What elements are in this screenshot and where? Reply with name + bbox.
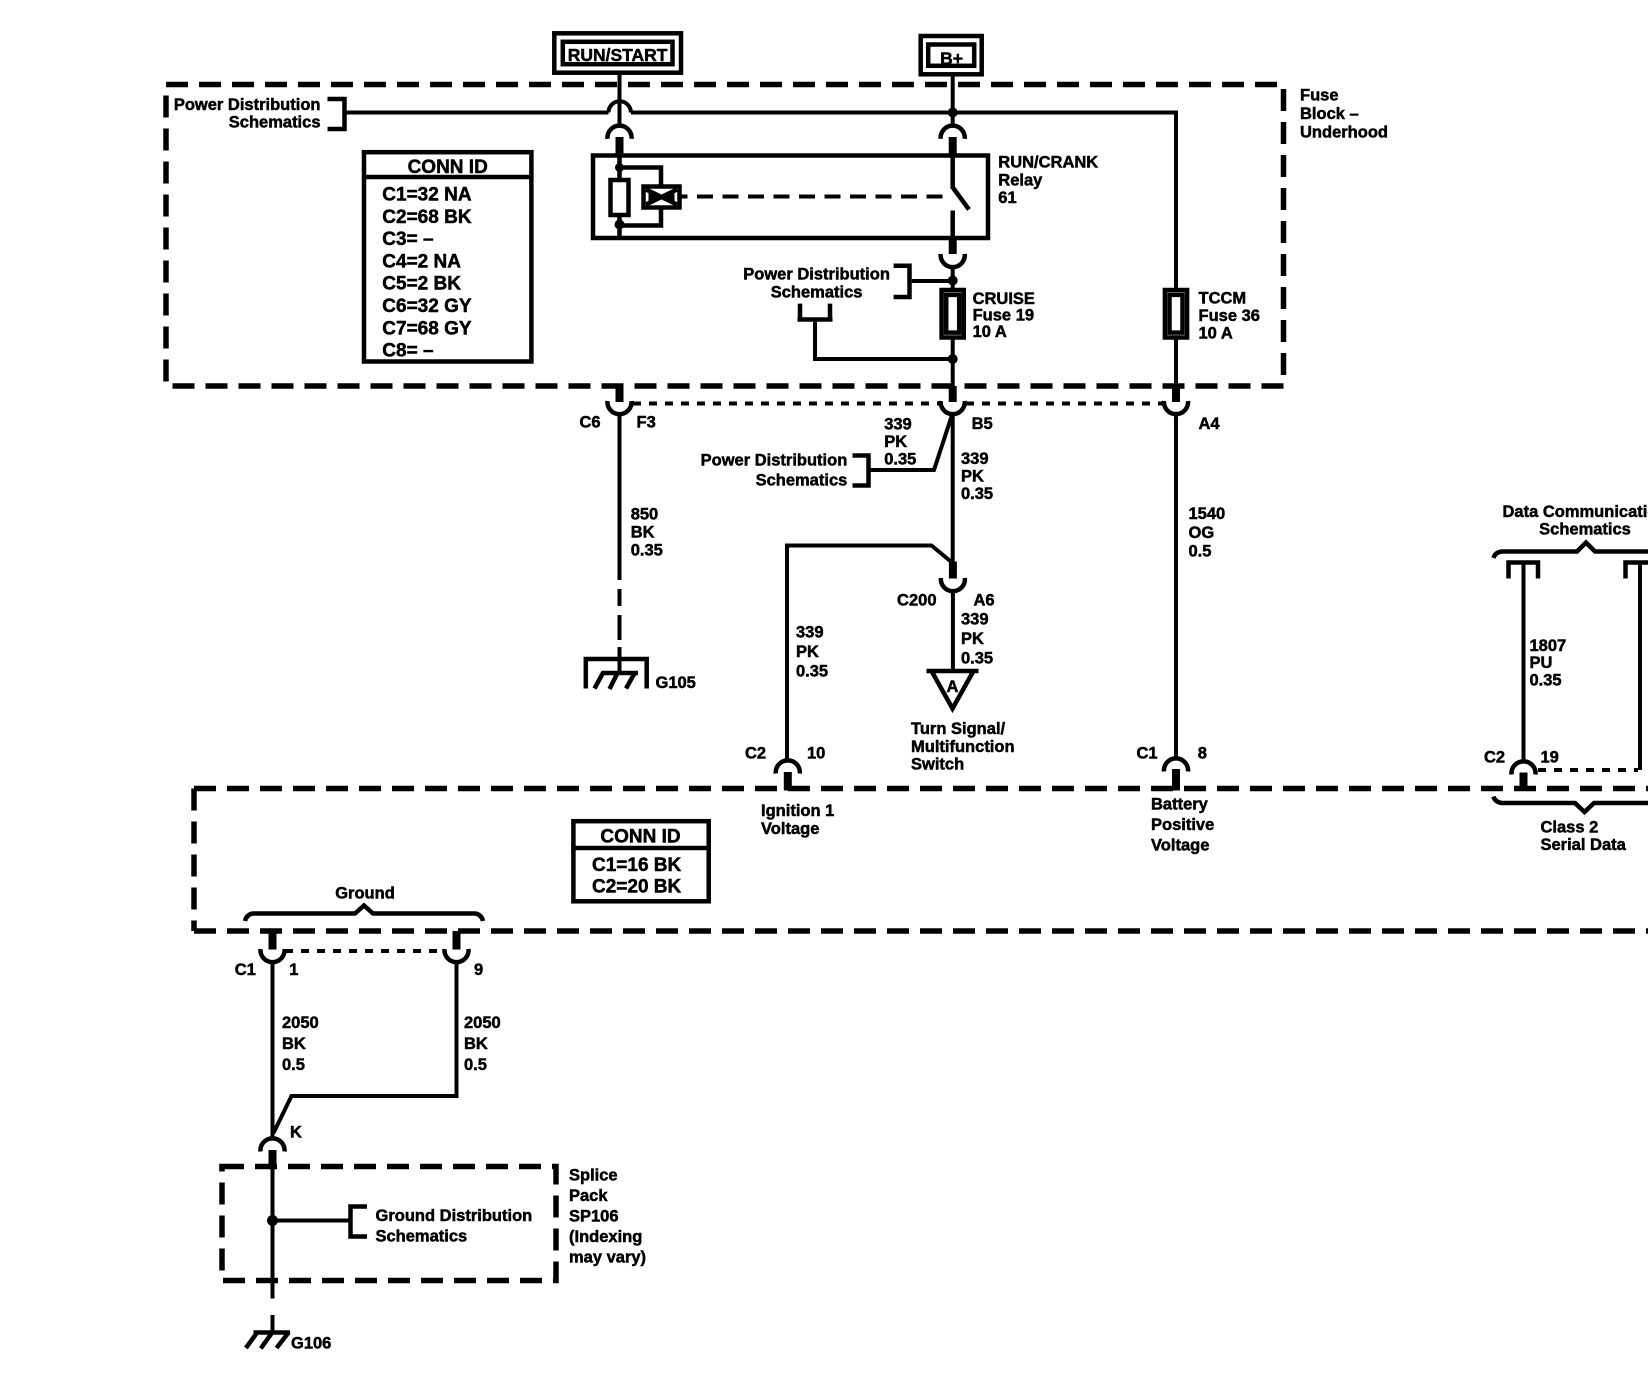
- svg-text:C5=2 BK: C5=2 BK: [382, 274, 461, 295]
- svg-text:Turn Signal/: Turn Signal/: [911, 720, 1006, 738]
- svg-text:Fuse: Fuse: [1300, 87, 1339, 105]
- svg-text:850: 850: [631, 506, 659, 524]
- wire from B+ down: [951, 74, 955, 127]
- wire right serial data down: [1638, 563, 1642, 771]
- svg-text:Block –: Block –: [1300, 105, 1359, 123]
- svg-text:C4=2 NA: C4=2 NA: [382, 251, 461, 272]
- junction dot upper coil branch: [615, 163, 624, 172]
- svg-text:PK: PK: [961, 630, 984, 648]
- wire relay to cruise fuse: [951, 267, 955, 291]
- svg-text:PK: PK: [796, 643, 819, 661]
- label RUN/CRANK Relay 61: [998, 154, 1098, 208]
- data communication brace (top): [1494, 543, 1648, 559]
- junction dot above cruise fuse: [948, 276, 958, 286]
- label Ignition 1 Voltage: [761, 802, 834, 838]
- svg-text:PU: PU: [1530, 654, 1553, 672]
- relay coil (crossed box): [644, 187, 680, 208]
- svg-text:1807: 1807: [1530, 637, 1567, 655]
- label CRUISE Fuse 19 10A: [973, 290, 1035, 341]
- svg-text:Serial Data: Serial Data: [1541, 836, 1627, 854]
- label Turn Signal / Multifunction Switch: [911, 720, 1015, 774]
- pin stub into cluster at C1 pin 8: [1172, 769, 1180, 791]
- label 339 PK 0.35 (left of B5): [884, 416, 916, 469]
- svg-text:BK: BK: [282, 1035, 306, 1053]
- svg-text:339: 339: [796, 624, 824, 642]
- svg-text:Positive: Positive: [1151, 816, 1214, 834]
- svg-text:Ground: Ground: [335, 885, 395, 903]
- svg-text:PK: PK: [961, 468, 984, 486]
- svg-text:C3= –: C3= –: [382, 229, 433, 250]
- svg-text:0.35: 0.35: [631, 542, 663, 560]
- off-page triangle arrow A (turn signal switch): [927, 671, 979, 709]
- connector arc below relay: [941, 254, 965, 267]
- resistor inside relay: [611, 180, 629, 215]
- label Power Distribution Schematics (center): [743, 266, 890, 302]
- svg-text:10: 10: [807, 745, 825, 763]
- svg-text:Voltage: Voltage: [1151, 837, 1209, 855]
- relay switch blade: [952, 186, 969, 210]
- svg-text:Battery: Battery: [1151, 796, 1209, 814]
- wire 850 BK dashed continuation: [618, 589, 622, 674]
- svg-text:C2=20 BK: C2=20 BK: [592, 877, 682, 898]
- svg-text:C1=32 NA: C1=32 NA: [382, 185, 472, 206]
- label 2050 BK 0.5 (left): [282, 1014, 319, 1074]
- svg-text:Pack: Pack: [569, 1187, 608, 1205]
- pin stub below cluster at C1 pin 9: [453, 931, 461, 950]
- svg-text:Schematics: Schematics: [229, 114, 321, 132]
- svg-text:Schematics: Schematics: [1539, 521, 1631, 539]
- wire below cruise fuse to connector B5: [951, 338, 955, 387]
- connector C100 dotted body line: [633, 402, 1165, 406]
- label Splice Pack SP106: [569, 1167, 646, 1267]
- label Power Distribution Schematics (middle reference): [701, 451, 848, 489]
- pin stub below cluster at C1 pin 1: [269, 931, 277, 950]
- wire bracket to fuse top node: [912, 279, 953, 283]
- wire hop over RUN/START wire: [609, 101, 631, 112]
- svg-text:1: 1: [289, 961, 298, 979]
- svg-text:10 A: 10 A: [973, 323, 1007, 341]
- svg-text:C200: C200: [897, 592, 936, 610]
- wire splice pack to G106: [271, 1281, 275, 1334]
- svg-text:Data Communication: Data Communication: [1502, 503, 1648, 521]
- CONN ID table (fuse block): [364, 152, 531, 361]
- svg-text:0.5: 0.5: [1189, 543, 1212, 561]
- wire 850 BK from C6 F3 down: [618, 414, 622, 580]
- junction dot at B+ / feed line: [948, 108, 958, 118]
- connector arc C1 pin 9: [444, 949, 468, 962]
- svg-text:0.35: 0.35: [961, 650, 993, 668]
- wire 339 PK below C200: [951, 591, 955, 671]
- svg-text:may vary): may vary): [569, 1249, 646, 1267]
- wire from RUN/START down: [618, 73, 622, 127]
- svg-text:Power Distribution: Power Distribution: [701, 451, 848, 469]
- svg-text:RUN/START: RUN/START: [568, 45, 668, 65]
- off-page reference bracket (ground distribution): [351, 1204, 368, 1238]
- label Battery Positive Voltage: [1151, 796, 1214, 855]
- svg-text:BK: BK: [464, 1035, 488, 1053]
- svg-text:CRUISE: CRUISE: [973, 290, 1035, 308]
- svg-text:A4: A4: [1199, 415, 1221, 433]
- fuse F36 TCCM: [1165, 290, 1187, 338]
- label 850 BK 0.35: [631, 506, 663, 560]
- connector dotted body C1 pins 1-9: [285, 949, 444, 953]
- svg-text:C2=68 BK: C2=68 BK: [382, 207, 472, 228]
- svg-text:Switch: Switch: [911, 756, 964, 774]
- wire 2050 BK from pin 9 down and left: [274, 962, 457, 1133]
- svg-text:Schematics: Schematics: [771, 284, 863, 302]
- pin stub into relay (B+ side): [949, 137, 957, 156]
- svg-text:K: K: [290, 1124, 302, 1142]
- label 1807 PU 0.35: [1530, 637, 1567, 690]
- connector dotted body C2 pin19: [1538, 768, 1638, 772]
- svg-text:RUN/CRANK: RUN/CRANK: [998, 154, 1098, 172]
- svg-text:19: 19: [1541, 749, 1559, 767]
- node RUN/START (voltage flag box): [554, 33, 681, 72]
- pin stub below fuse block at B5: [949, 386, 957, 402]
- connector arc B5: [941, 401, 965, 414]
- connector arc C2 pin 19: [1511, 761, 1535, 774]
- svg-text:CONN ID: CONN ID: [408, 157, 488, 178]
- dashed actuation link coil to switch: [680, 195, 944, 199]
- svg-text:Power Distribution: Power Distribution: [174, 96, 321, 114]
- svg-text:BK: BK: [631, 524, 655, 542]
- pin stub into C200: [949, 562, 957, 579]
- svg-text:9: 9: [474, 961, 483, 979]
- svg-text:C7=68 GY: C7=68 GY: [382, 318, 472, 339]
- junction dot below cruise fuse: [948, 354, 958, 364]
- label TCCM Fuse 36 10A: [1199, 290, 1260, 343]
- svg-text:Multifunction: Multifunction: [911, 738, 1015, 756]
- ground G105 symbol: [586, 659, 647, 689]
- wire 1540 OG from A4 down to C1 pin 8: [1174, 414, 1178, 759]
- svg-text:Power Distribution: Power Distribution: [743, 266, 890, 284]
- svg-text:C2: C2: [745, 745, 766, 763]
- body control module dashed box top border: [194, 786, 1648, 792]
- svg-text:Ignition 1: Ignition 1: [761, 802, 834, 820]
- svg-text:F3: F3: [637, 414, 656, 432]
- svg-text:Relay: Relay: [998, 172, 1043, 190]
- pin stub below fuse block at C6 F3: [616, 386, 624, 402]
- body control module dashed box bottom border: [194, 928, 1648, 934]
- svg-text:A6: A6: [974, 592, 995, 610]
- svg-text:Splice: Splice: [569, 1167, 618, 1185]
- label 339 PK 0.35 (below C200): [961, 611, 993, 668]
- svg-text:2050: 2050: [464, 1014, 501, 1032]
- relay K1 RUN/CRANK box: [593, 156, 988, 239]
- wire 1807 PU down: [1522, 563, 1526, 763]
- label Ground Distribution Schematics: [376, 1207, 533, 1246]
- connector arc C2 pin 10: [776, 760, 800, 773]
- off-page reference bottom bracket (under center text): [798, 304, 833, 320]
- wire bottom bracket to below-fuse node: [815, 322, 953, 359]
- svg-text:C1=16 BK: C1=16 BK: [592, 855, 682, 876]
- connector arc A4: [1164, 401, 1188, 414]
- junction dot lower coil branch: [615, 220, 625, 230]
- label Power Distribution Schematics (top left): [174, 96, 321, 132]
- body control module dashed box left border: [191, 789, 197, 932]
- svg-text:SP106: SP106: [569, 1208, 619, 1226]
- svg-text:C6: C6: [580, 414, 601, 432]
- label Data Communication Schematics: [1502, 503, 1648, 539]
- svg-text:1540: 1540: [1189, 505, 1226, 523]
- svg-text:TCCM: TCCM: [1199, 290, 1247, 308]
- label Class 2 Serial Data: [1541, 819, 1627, 855]
- serial data connector bracket (left): [1509, 563, 1539, 579]
- connector arc C6 F3: [607, 401, 631, 414]
- svg-text:0.5: 0.5: [282, 1056, 305, 1074]
- relay coil branch wires: [620, 156, 662, 239]
- svg-text:Schematics: Schematics: [756, 472, 848, 490]
- svg-text:PK: PK: [884, 433, 907, 451]
- svg-text:0.35: 0.35: [884, 451, 916, 469]
- off-page reference bracket (top left): [328, 97, 345, 132]
- svg-text:Fuse 36: Fuse 36: [1199, 307, 1260, 325]
- pin stub into cluster at C2 pin 19: [1520, 773, 1528, 792]
- CONN ID table (cluster): [573, 821, 708, 901]
- wire below TCCM fuse to connector A4: [1174, 338, 1178, 387]
- pin stub into splice pack at K: [269, 1150, 277, 1169]
- ground G106 symbol: [246, 1332, 290, 1349]
- wire: power distribution feed line to B+ and TCCM: [346, 113, 1176, 291]
- svg-text:0.5: 0.5: [464, 1056, 487, 1074]
- svg-text:CONN ID: CONN ID: [600, 827, 680, 848]
- connector arc C1 pin 8: [1164, 758, 1188, 771]
- label 1540 OG 0.5: [1189, 505, 1226, 561]
- svg-text:OG: OG: [1189, 524, 1215, 542]
- serial data connector bracket (right): [1626, 563, 1648, 579]
- ground brace: [245, 906, 483, 922]
- wire 2050 BK from pin 1 down to K: [271, 962, 275, 1139]
- wire branch to C2 pin 10 (ignition 1 voltage): [787, 546, 952, 762]
- svg-text:Schematics: Schematics: [376, 1228, 468, 1246]
- svg-text:0.35: 0.35: [796, 663, 828, 681]
- svg-text:C8= –: C8= –: [382, 341, 433, 362]
- connector arc at relay pin (RUN/START side): [607, 126, 631, 139]
- fuse block underhood dashed box: [166, 85, 1284, 387]
- svg-text:0.35: 0.35: [961, 485, 993, 503]
- svg-text:G105: G105: [656, 674, 696, 692]
- wire splice to ground distribution bracket: [273, 1219, 350, 1223]
- svg-text:A: A: [947, 678, 959, 696]
- off-page reference bracket (center right of text): [894, 264, 910, 300]
- pin stub into cluster at C2 pin 10: [784, 772, 792, 791]
- svg-text:61: 61: [998, 189, 1016, 207]
- svg-text:C1: C1: [1137, 745, 1158, 763]
- svg-text:Class 2: Class 2: [1541, 819, 1599, 837]
- svg-text:8: 8: [1198, 745, 1207, 763]
- svg-text:Fuse 19: Fuse 19: [973, 307, 1034, 325]
- label Fuse Block Underhood: [1300, 87, 1388, 142]
- wire through splice pack: [271, 1169, 275, 1299]
- class 2 serial data brace (bottom): [1494, 797, 1648, 813]
- connector arc at relay pin (B+ side): [941, 126, 965, 139]
- svg-text:0.35: 0.35: [1530, 672, 1562, 690]
- label 2050 BK 0.5 (right): [464, 1014, 501, 1074]
- svg-text:C2: C2: [1484, 749, 1505, 767]
- svg-text:G106: G106: [291, 1335, 331, 1353]
- svg-text:339: 339: [961, 450, 989, 468]
- junction dot splice: [267, 1215, 278, 1226]
- svg-text:B+: B+: [940, 49, 963, 69]
- svg-text:2050: 2050: [282, 1014, 319, 1032]
- wire 339 PK from B5 down: [951, 414, 955, 562]
- wire bracket join to ignition wire: [871, 417, 952, 471]
- label 339 PK 0.35 (C2 pin 10 wire): [796, 624, 828, 681]
- node B+ (voltage flag box): [921, 36, 982, 74]
- svg-text:10 A: 10 A: [1199, 325, 1233, 343]
- connector arc C1 pin 1: [260, 949, 284, 962]
- svg-text:C1: C1: [235, 961, 256, 979]
- fuse F19 CRUISE: [942, 290, 964, 338]
- pin stub below relay: [949, 238, 957, 254]
- svg-text:C6=32 GY: C6=32 GY: [382, 296, 472, 317]
- svg-text:339: 339: [884, 416, 912, 434]
- pin stub into relay (RUN/START side): [616, 137, 624, 156]
- svg-text:Ground Distribution: Ground Distribution: [376, 1207, 533, 1225]
- off-page reference bracket (middle): [853, 453, 869, 487]
- svg-text:339: 339: [961, 611, 989, 629]
- connector arc C200 A6: [941, 578, 965, 591]
- pin stub below fuse block at A4: [1172, 386, 1180, 402]
- svg-text:Voltage: Voltage: [761, 820, 819, 838]
- label 339 PK 0.35 (below B5 right side): [961, 450, 993, 503]
- splice pack SP106 dashed box: [222, 1167, 556, 1281]
- svg-text:Underhood: Underhood: [1300, 124, 1388, 142]
- connector arc K: [260, 1138, 284, 1151]
- svg-text:(Indexing: (Indexing: [569, 1228, 642, 1246]
- svg-text:B5: B5: [972, 415, 993, 433]
- relay switch contact: [950, 156, 955, 239]
